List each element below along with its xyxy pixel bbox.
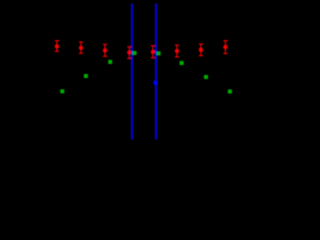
red error-bar series [55, 41, 228, 59]
green square G7 [228, 90, 232, 94]
green square G4 [157, 51, 161, 55]
blue square marker on line 2 [154, 81, 158, 85]
green square G6 [204, 75, 208, 79]
green square G5 [180, 61, 184, 65]
data point R7 [199, 44, 203, 56]
green square G3 [133, 51, 137, 55]
vertical marker line 2 (blue) [155, 4, 157, 140]
data point R3 [103, 44, 107, 56]
green square G2 [84, 74, 88, 78]
green square series [60, 51, 232, 94]
data point R6 [175, 45, 179, 57]
green square G8 [60, 89, 64, 93]
data point R8 [223, 41, 227, 54]
data point R2 [79, 42, 83, 53]
data point R1 [55, 41, 59, 52]
green square G1 [108, 60, 112, 64]
data point R5 [151, 46, 155, 58]
data point R4 [127, 47, 131, 59]
vertical marker line 1 (blue) [131, 4, 133, 140]
